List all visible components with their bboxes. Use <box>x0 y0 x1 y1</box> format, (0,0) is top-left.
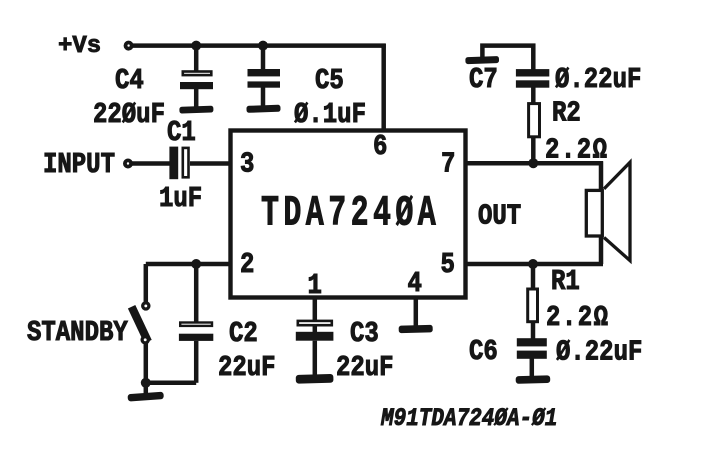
capacitor C3 <box>296 321 334 375</box>
svg-text:3: 3 <box>240 148 254 180</box>
svg-text:Ø.22uF: Ø.22uF <box>555 63 641 95</box>
svg-text:Ø.22uF: Ø.22uF <box>556 336 642 368</box>
svg-text:C4: C4 <box>115 64 144 96</box>
speaker LS1 <box>586 162 630 260</box>
svg-text:6: 6 <box>373 130 387 162</box>
svg-text:Ø.1uF: Ø.1uF <box>294 98 366 130</box>
svg-text:STANDBY: STANDBY <box>27 316 128 348</box>
svg-text:22uF: 22uF <box>336 351 394 383</box>
wire ground to C7 <box>482 46 533 70</box>
capacitor C7 <box>516 69 549 102</box>
ground pin 4 <box>399 325 433 333</box>
svg-text:22ØuF: 22ØuF <box>93 98 165 130</box>
svg-text:4: 4 <box>408 267 422 299</box>
svg-text:M91TDA724ØA-Ø1: M91TDA724ØA-Ø1 <box>380 404 557 432</box>
svg-text:C7: C7 <box>469 63 498 95</box>
junction switch/C2 <box>141 378 151 388</box>
junction +Vs/C4 <box>191 41 201 51</box>
wire junction to ground <box>144 383 149 395</box>
svg-text:2: 2 <box>240 248 254 280</box>
junction +Vs/C5 <box>258 41 268 51</box>
wire pin 5 to speaker <box>466 262 604 267</box>
wire pin 4 to ground <box>414 298 419 327</box>
ground C7 <box>465 56 499 64</box>
ground C6 <box>516 375 551 384</box>
op-amp U1 TDA7240A <box>231 131 466 298</box>
junction pin2/C2 <box>191 259 201 269</box>
wire pin 1 to C3 <box>313 298 318 321</box>
svg-text:+Vs: +Vs <box>58 33 101 60</box>
wire C1 to pin 3 <box>190 161 231 166</box>
svg-text:5: 5 <box>441 248 455 280</box>
terminal +Vs <box>126 43 132 49</box>
switch S1 <box>132 303 149 343</box>
wire to pin 6 <box>381 44 386 131</box>
junction pin7/R2 <box>528 158 538 168</box>
svg-text:22uF: 22uF <box>218 351 276 383</box>
capacitor C2 <box>179 264 213 383</box>
svg-text:C6: C6 <box>469 335 498 367</box>
capacitor C6 <box>517 338 547 376</box>
ground C3 <box>296 374 334 384</box>
svg-text:2.2Ω: 2.2Ω <box>545 134 609 166</box>
svg-text:C3: C3 <box>350 317 379 349</box>
svg-text:R1: R1 <box>551 265 580 297</box>
svg-text:C5: C5 <box>315 64 344 96</box>
resistor R2 <box>529 104 540 164</box>
wire junction to C2 bottom <box>146 381 196 386</box>
svg-text:2.2Ω: 2.2Ω <box>546 301 610 333</box>
wire speaker vertical <box>599 161 604 264</box>
capacitor C1 <box>169 147 188 180</box>
wire pin 2 <box>146 262 231 267</box>
svg-text:R2: R2 <box>552 97 581 129</box>
junction pin5/R1 <box>528 259 538 269</box>
wire to standby switch <box>144 264 149 303</box>
ground standby <box>127 392 163 402</box>
svg-text:TDA724ØA: TDA724ØA <box>261 190 440 239</box>
svg-text:7: 7 <box>441 148 455 180</box>
svg-text:1: 1 <box>308 269 322 301</box>
wire switch to junction <box>144 343 149 383</box>
svg-text:C1: C1 <box>167 116 196 148</box>
terminal INPUT <box>125 160 131 166</box>
ground C4 <box>179 106 213 114</box>
svg-text:OUT: OUT <box>478 200 521 232</box>
resistor R1 <box>528 264 538 339</box>
capacitor C5 <box>248 46 281 106</box>
svg-text:C2: C2 <box>229 317 258 349</box>
svg-text:1uF: 1uF <box>159 182 202 214</box>
wire +Vs rail <box>133 43 386 48</box>
svg-text:INPUT: INPUT <box>43 148 115 180</box>
wire input to C1 <box>132 161 171 166</box>
ground C5 <box>246 105 280 113</box>
wire pin 7 to speaker <box>466 161 604 166</box>
capacitor C4 <box>180 46 213 107</box>
